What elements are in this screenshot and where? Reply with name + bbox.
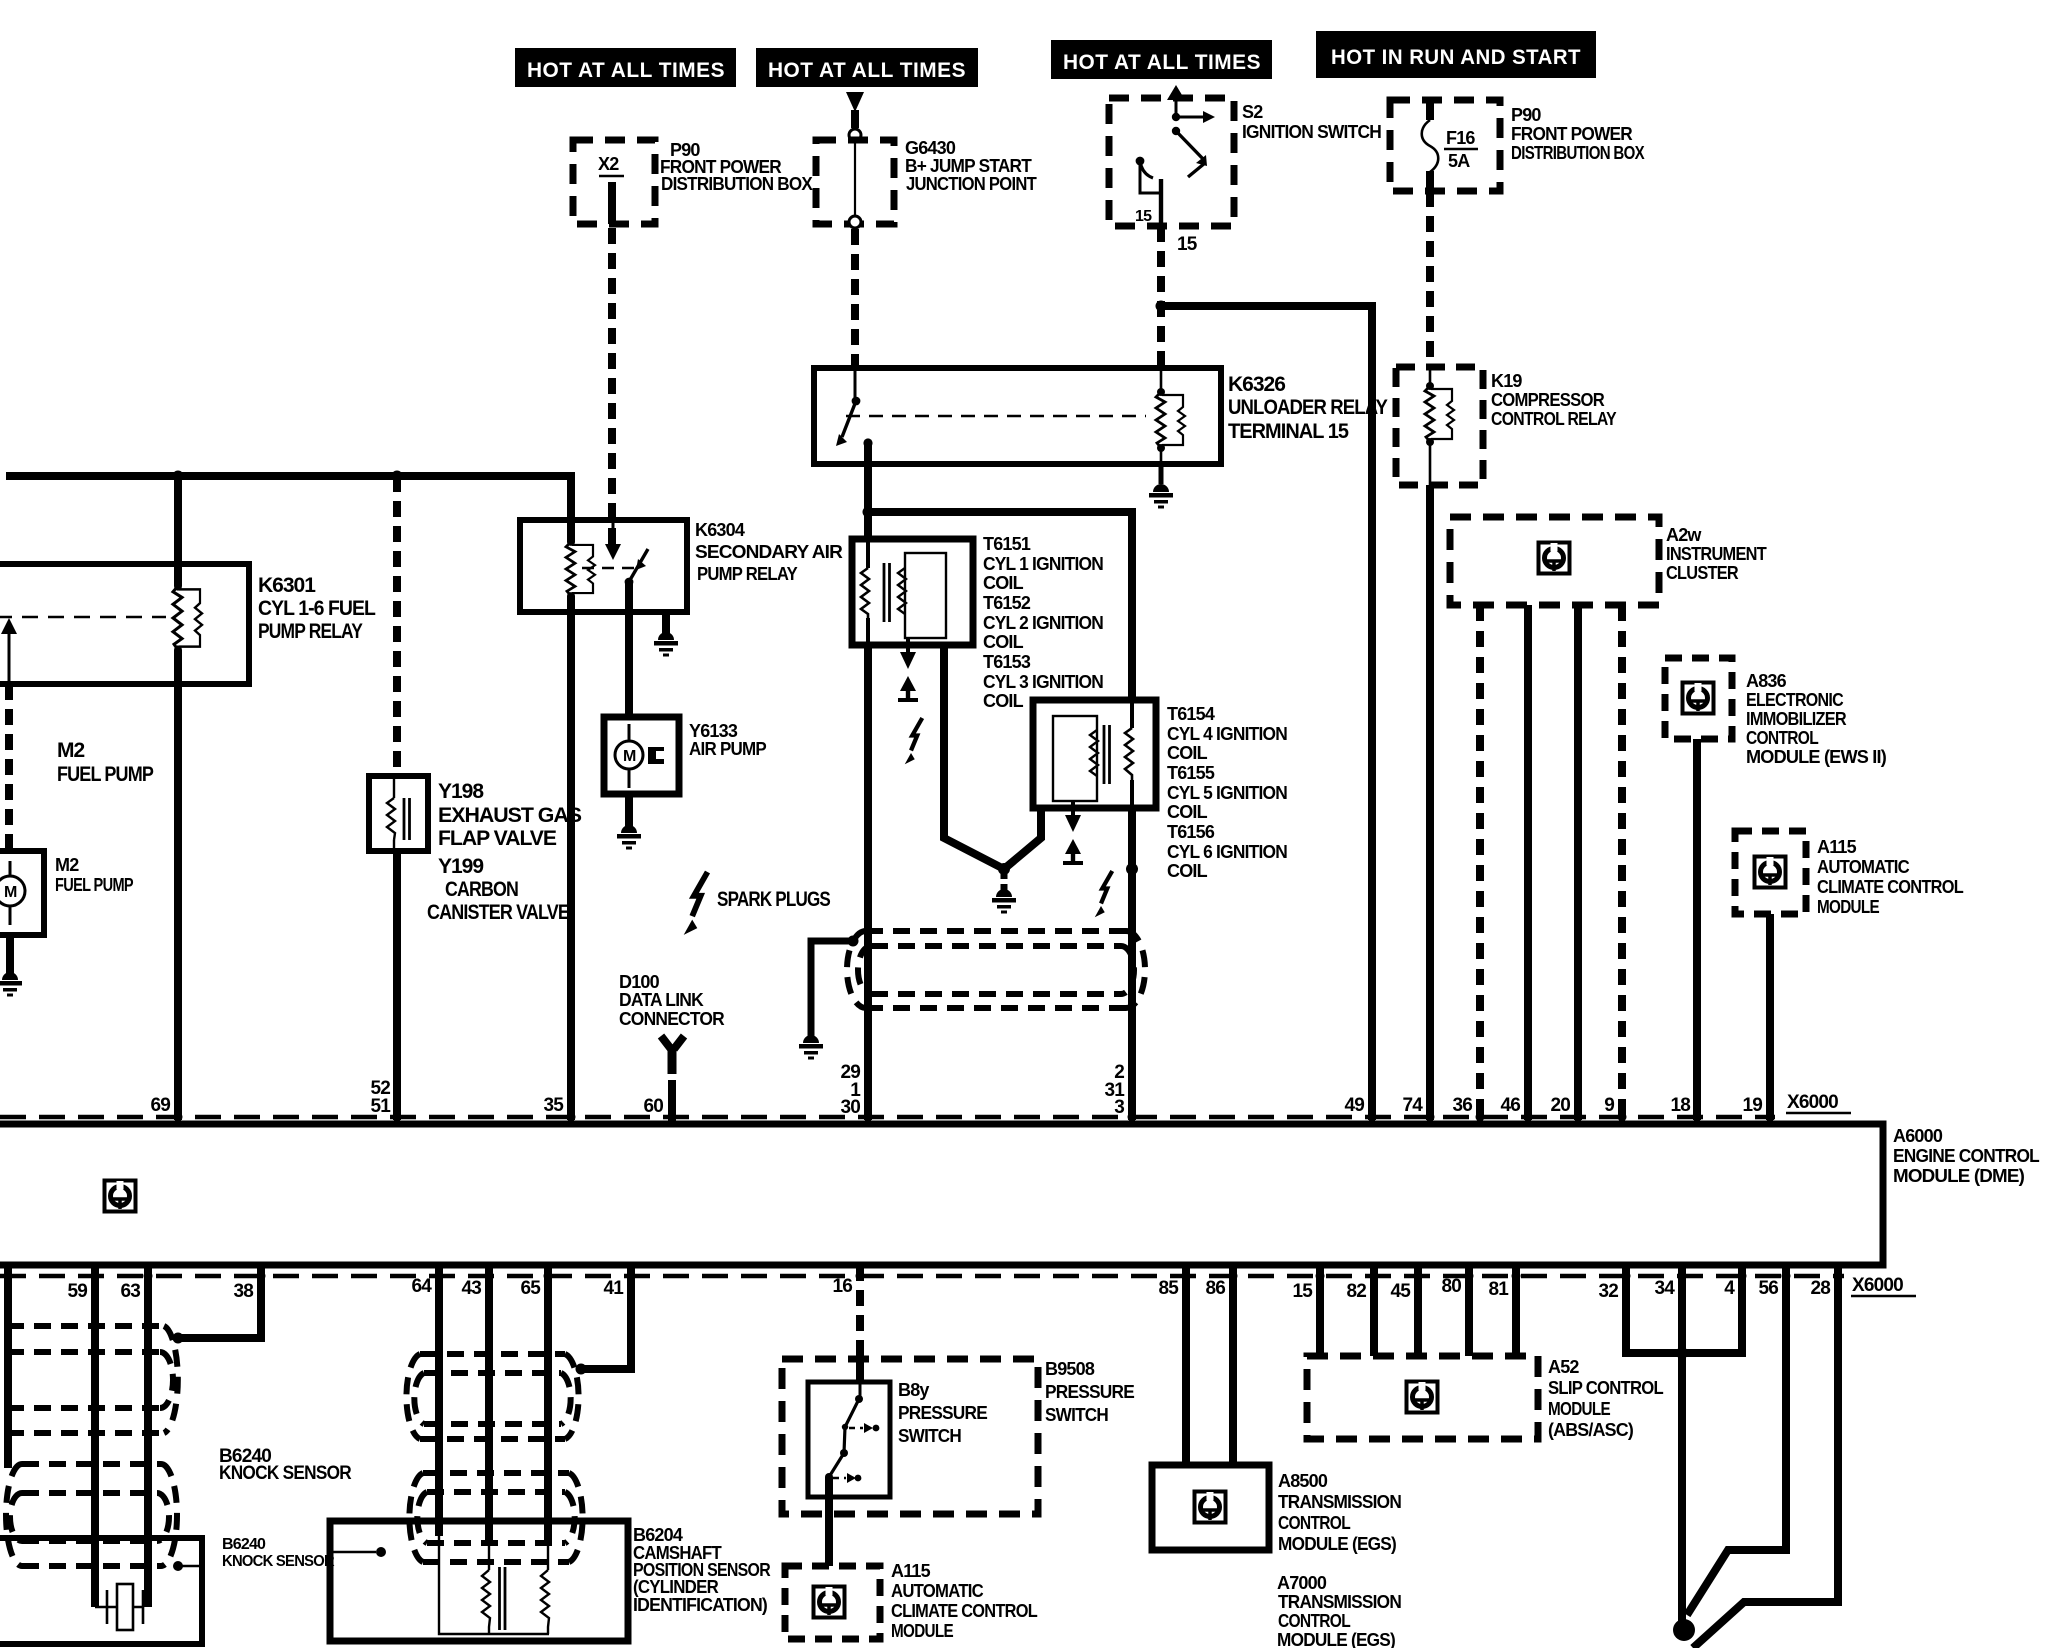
svg-text:SLIP CONTROL: SLIP CONTROL xyxy=(1548,1378,1664,1398)
svg-text:CONTROL: CONTROL xyxy=(1278,1513,1351,1533)
node: bus junction at Y198 xyxy=(392,471,403,482)
ignition cable tube (dashed sheath) xyxy=(847,931,1145,1008)
K6326 switch contact xyxy=(836,368,873,448)
svg-text:MODULE: MODULE xyxy=(1817,897,1880,917)
Y6133 air pump (box) xyxy=(604,717,767,794)
svg-text:81: 81 xyxy=(1488,1279,1509,1300)
svg-text:MODULE (EWS II): MODULE (EWS II) xyxy=(1746,747,1887,767)
left power bus wire xyxy=(6,476,571,520)
svg-text:INSTRUMENT: INSTRUMENT xyxy=(1666,544,1767,564)
svg-text:T6155: T6155 xyxy=(1167,763,1215,783)
node: dot on T6154 wire xyxy=(1126,863,1138,875)
wire T6151 primary to DME pins 29/1/30 xyxy=(864,645,872,1120)
svg-text:FRONT POWER: FRONT POWER xyxy=(1511,124,1633,144)
wire A2w to pin 46 xyxy=(1524,605,1532,1120)
svg-text:64: 64 xyxy=(411,1276,432,1297)
T6151 spark bolt xyxy=(905,718,923,764)
K6304 relay coil xyxy=(566,520,595,600)
svg-text:M: M xyxy=(4,884,17,901)
A115 automatic climate control module (dashed box, upper) xyxy=(1735,831,1964,917)
wire B8y to A115 xyxy=(825,1477,833,1566)
svg-text:M2: M2 xyxy=(57,739,84,762)
node: dot at loop junction xyxy=(1676,1347,1688,1359)
K6301 cyl 1-6 fuel pump relay (box) xyxy=(0,564,376,684)
svg-text:32: 32 xyxy=(1598,1281,1618,1302)
svg-text:CYL 4 IGNITION: CYL 4 IGNITION xyxy=(1167,724,1287,744)
svg-text:X6000: X6000 xyxy=(1787,1092,1838,1113)
svg-text:(ABS/ASC): (ABS/ASC) xyxy=(1548,1420,1634,1440)
K6326 unloader relay terminal 15 (box) xyxy=(814,368,1388,464)
K6326 relay coil xyxy=(1156,368,1185,464)
svg-text:60: 60 xyxy=(643,1096,663,1117)
svg-text:MODULE (EGS): MODULE (EGS) xyxy=(1278,1534,1397,1554)
A8500 transmission control module EGS (box) xyxy=(1152,1465,1401,1554)
A52 slip control module ABS/ASC (dashed box) xyxy=(1307,1356,1664,1440)
A7000 transmission control module EGS label xyxy=(1277,1573,1401,1648)
node: junction dot S2 wire / branch to pin 49 xyxy=(1156,301,1167,312)
header HOT AT ALL TIMES (right) xyxy=(1051,40,1272,79)
K6301 actuation dashed link xyxy=(0,616,166,618)
svg-text:A2w: A2w xyxy=(1666,525,1702,545)
svg-text:K6301: K6301 xyxy=(258,574,316,597)
S2 ignition switch (dashed box) xyxy=(1109,85,1381,226)
svg-text:MODULE (EGS): MODULE (EGS) xyxy=(1277,1630,1396,1648)
svg-text:63: 63 xyxy=(120,1281,140,1302)
svg-text:9: 9 xyxy=(1604,1095,1614,1116)
svg-text:Y199: Y199 xyxy=(438,855,483,878)
node: dot lower tube to box shield xyxy=(173,1561,183,1571)
svg-text:KNOCK SENSOR: KNOCK SENSOR xyxy=(222,1553,335,1570)
wire loop to bottom ground xyxy=(1678,1353,1686,1622)
svg-text:34: 34 xyxy=(1654,1278,1675,1299)
nodes: top row connector dots xyxy=(174,1113,1775,1122)
svg-text:AUTOMATIC: AUTOMATIC xyxy=(891,1581,984,1601)
wire pin 86 to A8500 xyxy=(1229,1265,1237,1465)
svg-text:A7000: A7000 xyxy=(1277,1573,1327,1593)
T6154/T6155/T6156 cyl 4-6 ignition coils (box) xyxy=(1033,700,1287,881)
K6304 arrow from X2 wire xyxy=(605,520,621,560)
svg-text:Y198: Y198 xyxy=(438,780,484,803)
svg-text:43: 43 xyxy=(461,1278,481,1299)
A836 electronic immobilizer control module EWS II (dashed box) xyxy=(1665,658,1887,767)
svg-text:PUMP RELAY: PUMP RELAY xyxy=(258,620,363,643)
wire pin 59 to knock sensor xyxy=(91,1265,99,1607)
svg-text:COIL: COIL xyxy=(1167,802,1208,822)
pin numbers bottom row xyxy=(67,1276,1830,1302)
svg-text:56: 56 xyxy=(1758,1278,1778,1299)
T6154 spark output arrow xyxy=(1065,801,1081,832)
svg-text:69: 69 xyxy=(150,1095,170,1116)
ground below K6326 coil xyxy=(1159,464,1164,484)
svg-text:CARBON: CARBON xyxy=(445,878,518,901)
K6304 secondary air pump relay (box) xyxy=(520,520,843,612)
svg-text:IDENTIFICATION): IDENTIFICATION) xyxy=(633,1595,768,1615)
wire T6151 secondary return to V-ground xyxy=(944,645,1004,869)
svg-text:15: 15 xyxy=(1292,1281,1313,1302)
K6301 relay coil xyxy=(173,476,202,655)
svg-text:CYL 2 IGNITION: CYL 2 IGNITION xyxy=(983,613,1103,633)
svg-text:FUEL PUMP: FUEL PUMP xyxy=(57,763,154,786)
wire K6301 to DME pin 69 xyxy=(174,650,182,1120)
svg-text:COIL: COIL xyxy=(983,691,1024,711)
T6151 spark plug symbol xyxy=(898,676,918,702)
wire M2 fuel pump (dashed) xyxy=(5,684,13,851)
X6000 connector row (top, dashed) xyxy=(0,1115,1775,1120)
A6000 engine control module DME (box) xyxy=(0,1124,2040,1265)
svg-text:PRESSURE: PRESSURE xyxy=(898,1403,988,1423)
ground below M2 xyxy=(6,935,14,978)
svg-text:HOT AT ALL TIMES: HOT AT ALL TIMES xyxy=(1063,51,1261,74)
svg-text:49: 49 xyxy=(1344,1095,1364,1116)
ignition cable shield ground wire xyxy=(811,941,853,1040)
wire K6304 coil to DME pin 35 xyxy=(567,596,575,1120)
svg-text:IMMOBILIZER: IMMOBILIZER xyxy=(1746,709,1847,729)
svg-text:HOT IN RUN AND START: HOT IN RUN AND START xyxy=(1331,46,1581,69)
svg-text:CONTROL: CONTROL xyxy=(1278,1611,1351,1631)
svg-text:MODULE (DME): MODULE (DME) xyxy=(1893,1166,2025,1186)
svg-text:COIL: COIL xyxy=(983,632,1024,652)
svg-text:SWITCH: SWITCH xyxy=(1045,1405,1108,1425)
svg-text:85: 85 xyxy=(1158,1278,1179,1299)
svg-text:SPARK PLUGS: SPARK PLUGS xyxy=(717,888,831,911)
svg-text:A115: A115 xyxy=(891,1561,931,1581)
wire Y198 to DME pins 52/51 xyxy=(393,851,401,1120)
pin numbers top row xyxy=(150,1062,1762,1118)
ground blob at bottom xyxy=(1673,1619,1695,1641)
svg-text:K6304: K6304 xyxy=(695,520,745,540)
svg-text:PUMP RELAY: PUMP RELAY xyxy=(697,564,798,584)
svg-text:51: 51 xyxy=(370,1096,391,1117)
svg-text:A8500: A8500 xyxy=(1278,1471,1328,1491)
X6000 connector row (bottom, dashed) xyxy=(0,1274,1844,1279)
wire F16 to K19 (dashed) xyxy=(1426,191,1434,367)
svg-text:A6000: A6000 xyxy=(1893,1126,1943,1146)
svg-text:FUEL PUMP: FUEL PUMP xyxy=(55,875,134,895)
camshaft sensor cable tube (lower, dashed) xyxy=(409,1473,582,1562)
svg-text:86: 86 xyxy=(1205,1278,1225,1299)
wire rail down to T6151 xyxy=(864,512,872,539)
wires pins 32/34/4 ground loop xyxy=(1626,1265,1742,1353)
svg-text:T6153: T6153 xyxy=(983,652,1031,672)
wire pin 63 to knock sensor xyxy=(144,1265,152,1607)
svg-text:4: 4 xyxy=(1724,1278,1735,1299)
svg-text:CYL 1 IGNITION: CYL 1 IGNITION xyxy=(983,554,1103,574)
svg-text:38: 38 xyxy=(233,1281,253,1302)
wire pin 38 shield xyxy=(180,1265,261,1338)
ground stub below K6304 xyxy=(662,612,670,636)
svg-text:46: 46 xyxy=(1500,1095,1520,1116)
svg-text:CYL 1-6 FUEL: CYL 1-6 FUEL xyxy=(258,597,376,620)
svg-text:19: 19 xyxy=(1742,1095,1762,1116)
svg-text:G6430: G6430 xyxy=(905,138,956,158)
wire pin 28 to bottom ground xyxy=(1693,1265,1838,1648)
svg-text:ENGINE CONTROL: ENGINE CONTROL xyxy=(1893,1146,2040,1166)
wire A2w to pin 9 (dashed) xyxy=(1618,605,1626,1120)
connector X2 / P90 front power distribution box (dashed) xyxy=(573,140,813,224)
svg-text:COIL: COIL xyxy=(1167,743,1208,763)
svg-text:CLIMATE CONTROL: CLIMATE CONTROL xyxy=(891,1601,1038,1621)
svg-text:M2: M2 xyxy=(55,855,79,875)
wire K19 to DME pin 74 xyxy=(1426,485,1434,1120)
header HOT AT ALL TIMES (left) xyxy=(515,48,736,87)
svg-text:59: 59 xyxy=(67,1281,87,1302)
T6154 spark bolt xyxy=(1095,871,1113,917)
node: spark V junction dot xyxy=(998,863,1010,875)
svg-text:74: 74 xyxy=(1402,1095,1423,1116)
M2 fuel pump wire arrow into K6301 xyxy=(1,618,17,684)
svg-text:TRANSMISSION: TRANSMISSION xyxy=(1278,1592,1401,1612)
svg-text:PRESSURE: PRESSURE xyxy=(1045,1382,1135,1402)
svg-text:18: 18 xyxy=(1670,1095,1690,1116)
B+ terminal arrow above G6430 xyxy=(846,92,864,141)
ground below Y6133 xyxy=(625,794,633,831)
svg-text:UNLOADER RELAY: UNLOADER RELAY xyxy=(1228,396,1388,419)
svg-text:TERMINAL 15: TERMINAL 15 xyxy=(1228,420,1349,443)
svg-text:EXHAUST GAS: EXHAUST GAS xyxy=(438,804,582,827)
svg-text:B9508: B9508 xyxy=(1045,1359,1095,1379)
wire T6154 secondary return to V-ground xyxy=(1004,808,1041,869)
chassis ground below V junction xyxy=(1001,869,1008,893)
svg-text:B6240: B6240 xyxy=(222,1536,266,1553)
D100 data link connector symbol and wire to pin 60 xyxy=(661,1036,684,1124)
svg-text:B6204: B6204 xyxy=(633,1525,683,1545)
wire A2w to pin 36 (dashed) xyxy=(1476,605,1484,1120)
wire K6304 contact to Y6133 xyxy=(625,582,633,717)
wire from X2 to K6304 (dashed) xyxy=(608,182,616,224)
wire A115 to pin 19 xyxy=(1766,914,1774,1120)
wire branch from node to DME pin 49 xyxy=(1161,306,1372,1120)
svg-text:A52: A52 xyxy=(1548,1357,1579,1377)
svg-text:A115: A115 xyxy=(1817,837,1857,857)
node: dot at camshaft tube right end xyxy=(576,1364,587,1375)
svg-text:CLUSTER: CLUSTER xyxy=(1666,563,1739,583)
svg-text:45: 45 xyxy=(1390,1281,1411,1302)
K19 compressor control relay (dashed box) xyxy=(1396,367,1617,485)
svg-text:CONTROL RELAY: CONTROL RELAY xyxy=(1491,409,1617,429)
svg-text:MODULE: MODULE xyxy=(1548,1399,1611,1419)
svg-text:20: 20 xyxy=(1550,1095,1570,1116)
B6204 camshaft position sensor (box) xyxy=(330,1521,771,1641)
wire T6154 primary to DME pins 2/31/3 xyxy=(1128,808,1136,1120)
svg-text:T6151: T6151 xyxy=(983,534,1031,554)
svg-text:65: 65 xyxy=(520,1278,541,1299)
svg-text:T6154: T6154 xyxy=(1167,704,1215,724)
svg-text:AIR PUMP: AIR PUMP xyxy=(689,739,767,759)
T6151/T6152/T6153 cyl 1-3 ignition coils (box) xyxy=(852,534,1103,711)
svg-text:P90: P90 xyxy=(1511,105,1541,125)
svg-text:IGNITION SWITCH: IGNITION SWITCH xyxy=(1242,122,1381,142)
G6430 B+ jump start junction point (dashed box) xyxy=(816,138,1037,228)
header HOT IN RUN AND START xyxy=(1316,31,1596,78)
svg-text:Y6133: Y6133 xyxy=(689,721,738,741)
wire pin 41 shield xyxy=(583,1265,631,1369)
svg-text:COMPRESSOR: COMPRESSOR xyxy=(1491,390,1605,410)
wire A2w to pin 20 xyxy=(1574,605,1582,1120)
svg-text:5A: 5A xyxy=(1448,151,1470,171)
svg-text:82: 82 xyxy=(1346,1281,1366,1302)
svg-text:B+ JUMP START: B+ JUMP START xyxy=(905,156,1032,176)
svg-text:3: 3 xyxy=(1114,1097,1124,1118)
Y198 exhaust gas flap valve / Y199 carbon canister valve (box) xyxy=(369,776,582,924)
B9508 pressure switch (dashed box) xyxy=(782,1359,1135,1514)
spark plugs legend bolt xyxy=(684,872,708,935)
svg-text:S2: S2 xyxy=(1242,102,1263,122)
wire S2 terminal 15 down (dashed) with label xyxy=(1157,226,1165,366)
knock sensor cable tube (lower, dashed) xyxy=(6,1464,177,1566)
P90 front power distribution box with fuse F16 (dashed) xyxy=(1390,100,1645,191)
svg-text:MODULE: MODULE xyxy=(891,1621,954,1641)
A115 automatic climate control module (dashed box, lower) xyxy=(785,1561,1038,1641)
wire ignition feed rail to T6154 xyxy=(868,512,1132,700)
camshaft sensor cable tube (upper, dashed) xyxy=(406,1354,578,1439)
svg-text:X6000: X6000 xyxy=(1852,1275,1903,1296)
M2 fuel pump (box with motor) xyxy=(0,851,134,935)
knock sensor cable tube (upper, dashed) xyxy=(0,1326,178,1433)
svg-text:16: 16 xyxy=(832,1276,852,1297)
wire A836 to pin 18 xyxy=(1693,739,1701,1120)
svg-text:(CYLINDER: (CYLINDER xyxy=(633,1577,719,1597)
wire pin 16 to B9508 (dashed) xyxy=(856,1265,864,1359)
svg-text:B8y: B8y xyxy=(898,1380,929,1400)
svg-text:35: 35 xyxy=(543,1095,564,1116)
svg-text:HOT AT ALL TIMES: HOT AT ALL TIMES xyxy=(527,59,725,82)
K6304 actuation dashed link xyxy=(582,567,640,569)
svg-text:K6326: K6326 xyxy=(1228,373,1285,396)
svg-text:X2: X2 xyxy=(598,154,619,174)
wires pins 15/82/45/80/81 to A52 xyxy=(1320,1265,1516,1356)
svg-text:30: 30 xyxy=(840,1097,860,1118)
node: dot at knock tube right end xyxy=(173,1333,184,1344)
svg-text:15: 15 xyxy=(1177,234,1198,255)
svg-text:80: 80 xyxy=(1441,1276,1461,1297)
wire pin 64 to B6204 xyxy=(435,1265,443,1536)
K6304 switch contact xyxy=(625,549,648,586)
svg-text:D100: D100 xyxy=(619,972,660,992)
node: dot at shield tube left end xyxy=(848,936,859,947)
svg-text:DISTRIBUTION BOX: DISTRIBUTION BOX xyxy=(1511,143,1645,163)
svg-text:41: 41 xyxy=(603,1278,624,1299)
svg-text:CYL 5 IGNITION: CYL 5 IGNITION xyxy=(1167,783,1287,803)
svg-text:SWITCH: SWITCH xyxy=(898,1426,961,1446)
wire bus to Y198 (dashed) xyxy=(393,476,401,776)
svg-text:CANISTER VALVE: CANISTER VALVE xyxy=(427,901,570,924)
node: bus junction at K6301 xyxy=(173,471,184,482)
svg-text:DISTRIBUTION BOX: DISTRIBUTION BOX xyxy=(661,174,813,194)
svg-text:T6152: T6152 xyxy=(983,593,1031,613)
svg-text:K19: K19 xyxy=(1491,371,1522,391)
svg-text:CONTROL: CONTROL xyxy=(1746,728,1819,748)
wire pin 43 to B6204 xyxy=(485,1265,493,1545)
chassis ground for spark shield xyxy=(799,1035,823,1060)
header HOT AT ALL TIMES (center) xyxy=(756,48,978,87)
wire K6326 contact to coil rail xyxy=(864,443,872,512)
svg-text:COIL: COIL xyxy=(983,573,1024,593)
T6154 spark plug symbol xyxy=(1063,839,1083,865)
wire G6430 to K6326 switch (dashed) xyxy=(851,229,859,366)
wire stub far left below DME xyxy=(4,1265,12,1468)
svg-text:JUNCTION POINT: JUNCTION POINT xyxy=(906,174,1037,194)
svg-text:COIL: COIL xyxy=(1167,861,1208,881)
svg-text:AUTOMATIC: AUTOMATIC xyxy=(1817,857,1910,877)
node: rail junction dot xyxy=(863,507,874,518)
A2w instrument cluster (dashed box) xyxy=(1450,517,1767,605)
svg-text:CYL 6 IGNITION: CYL 6 IGNITION xyxy=(1167,842,1287,862)
svg-text:15: 15 xyxy=(1135,208,1152,225)
svg-text:CLIMATE CONTROL: CLIMATE CONTROL xyxy=(1817,877,1964,897)
svg-text:CYL 3 IGNITION: CYL 3 IGNITION xyxy=(983,672,1103,692)
svg-text:FLAP VALVE: FLAP VALVE xyxy=(438,827,557,850)
svg-text:36: 36 xyxy=(1452,1095,1472,1116)
svg-text:M: M xyxy=(623,748,636,765)
svg-text:KNOCK SENSOR: KNOCK SENSOR xyxy=(219,1463,352,1484)
wire pin 56 to bottom ground xyxy=(1687,1265,1786,1615)
svg-text:T6156: T6156 xyxy=(1167,822,1215,842)
svg-text:ELECTRONIC: ELECTRONIC xyxy=(1746,690,1844,710)
wire pin 85 to A8500 xyxy=(1182,1265,1190,1465)
B8y pressure switch (box) xyxy=(808,1359,988,1497)
svg-text:A836: A836 xyxy=(1746,671,1787,691)
K6326 actuation dashed link xyxy=(846,415,1146,417)
svg-text:DATA LINK: DATA LINK xyxy=(619,990,704,1010)
svg-text:SECONDARY AIR: SECONDARY AIR xyxy=(695,542,843,562)
T6151 spark output arrow xyxy=(900,638,916,669)
B6240 knock sensor (box) xyxy=(0,1538,202,1644)
svg-text:HOT AT ALL TIMES: HOT AT ALL TIMES xyxy=(768,59,966,82)
svg-text:CONNECTOR: CONNECTOR xyxy=(619,1009,725,1029)
wire pin 65 to B6204 xyxy=(544,1265,552,1545)
nodes: bottom row connector dots xyxy=(4,1272,1843,1281)
svg-text:28: 28 xyxy=(1810,1278,1830,1299)
svg-text:F16: F16 xyxy=(1446,128,1475,148)
svg-text:TRANSMISSION: TRANSMISSION xyxy=(1278,1492,1401,1512)
